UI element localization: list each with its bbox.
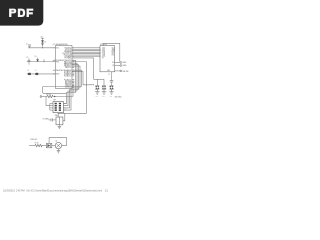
- IC U2 (interface IC body): [100, 44, 115, 72]
- svg-text:D5: D5: [35, 56, 37, 58]
- svg-text:C7: C7: [108, 74, 110, 76]
- svg-text:PB5/SCK: PB5/SCK: [65, 67, 73, 69]
- svg-text:D1: D1: [44, 42, 46, 44]
- diode D5 on reset row: [35, 56, 39, 62]
- svg-text:10/29/2019, 2:45 PM file:///: 10/29/2019, 2:45 PM file:///C:/Users/Mai…: [3, 189, 109, 192]
- ground under D3: [102, 92, 106, 98]
- transistor loop wire: [49, 138, 67, 146]
- svg-text:GND: GND: [110, 96, 113, 98]
- resistor R2 body: [35, 143, 42, 147]
- svg-text:GND SHLD: GND SHLD: [115, 97, 122, 99]
- wire row PD7 to diode rail: [72, 58, 94, 79]
- svg-text:DP: DP: [112, 65, 114, 67]
- U1 right pin labels: [63, 47, 73, 88]
- svg-text:C1: C1: [26, 44, 28, 46]
- node junction on reset row: [43, 59, 44, 62]
- reset row: wire: [27, 61, 56, 63]
- transistor Q1: [52, 141, 62, 149]
- ground under Q1: [57, 149, 61, 153]
- node labels USB: [122, 62, 128, 73]
- U1 left pin stubs: [53, 48, 56, 74]
- svg-text:C2: C2: [26, 57, 28, 59]
- svg-text:OSC: OSC: [111, 55, 114, 57]
- svg-text:Q1: Q1: [55, 141, 57, 143]
- svg-text:USBD+: USBD+: [122, 65, 127, 67]
- svg-text:DM: DM: [112, 62, 114, 64]
- resistor R1 body: [46, 94, 56, 98]
- resistor R2 row: [29, 145, 46, 147]
- inductor L2 (filled body): [35, 70, 39, 75]
- diode D2 (TVS bowtie): [95, 86, 100, 92]
- wire U2 top bracket: [103, 43, 120, 61]
- svg-text:USBD-: USBD-: [122, 62, 127, 64]
- svg-text:FT232RL: FT232RL: [100, 44, 107, 46]
- svg-text:GND: GND: [107, 70, 110, 72]
- crystal Y1: [42, 114, 63, 125]
- svg-text:Y1 16MHz: Y1 16MHz: [42, 118, 49, 120]
- wire PB1 to crystal rail: [72, 62, 87, 114]
- svg-text:L2: L2: [35, 70, 37, 72]
- IC U1 (microcontroller body): [53, 43, 72, 88]
- svg-text:PD3: PD3: [56, 61, 59, 63]
- wire PB0 bus to ISP header right side: [64, 60, 81, 110]
- capacitor C1 on VCC row: [26, 44, 31, 48]
- U1 right pin number specks: [73, 47, 75, 88]
- capacitor C2 vertical on reset row: [26, 57, 30, 65]
- diode D3 (TVS bowtie): [102, 86, 107, 92]
- diode rail: [94, 79, 105, 85]
- ferrite row: wire: [27, 73, 56, 75]
- top-left cluster: zener D1: [40, 37, 46, 48]
- PDF badge: [0, 0, 43, 26]
- wire U1 bottom loop to header left: [42, 70, 94, 93]
- wire U1 TXD/RXD bus to U2: [72, 48, 100, 57]
- U2 left pin numbers: [100, 47, 102, 59]
- svg-text:L1: L1: [27, 70, 29, 72]
- J1 pin stubs: [50, 104, 67, 111]
- U1 right pin stubs: [72, 60, 74, 87]
- U1 left pin number specks: [54, 47, 56, 75]
- ground under D2: [95, 92, 99, 98]
- U2 left pin labels: [102, 47, 105, 59]
- svg-text:PWR LED: PWR LED: [30, 139, 38, 141]
- crystal rail wire: [58, 113, 87, 121]
- diode D6 block: [46, 143, 51, 147]
- U2 right pin labels: [107, 47, 114, 72]
- capacitor C3 beside crystal: [49, 118, 56, 121]
- crystal ground: [58, 125, 62, 129]
- svg-text:ISP: ISP: [53, 99, 55, 101]
- diode D4 (TVS bowtie): [109, 86, 114, 92]
- J1 ground drop: [46, 97, 50, 111]
- resistor R1 row with terminal: [40, 85, 73, 97]
- svg-text:GND: GND: [96, 96, 99, 98]
- ground under D4: [109, 92, 113, 98]
- wire VCC row: [28, 47, 56, 48]
- inductor L1 (filled body): [27, 70, 31, 75]
- svg-text:USB GND: USB GND: [122, 71, 128, 73]
- ISP header J1: [53, 99, 64, 112]
- capacitor C7 at U2 bottom: [108, 72, 113, 86]
- wire U2 USB data lines with connector circles: [115, 62, 122, 72]
- U1 left pin labels: [56, 47, 64, 75]
- svg-text:GND: GND: [102, 96, 105, 98]
